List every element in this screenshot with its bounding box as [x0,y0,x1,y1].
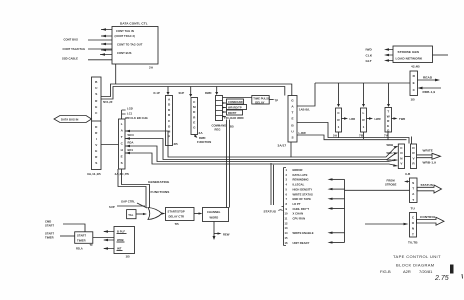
wire gate out1 [297,83,315,106]
wire control in [365,223,409,226]
box U18 channel word [203,208,229,222]
label SUP [179,91,185,95]
svg-text:B PLF: B PLF [117,230,125,234]
svg-text:TU,TB: TU,TB [408,241,418,245]
svg-text:TU: TU [411,207,416,211]
svg-text:DATA CONTL CTL: DATA CONTL CTL [120,22,148,26]
svg-text:5A: 5A [333,134,338,138]
wire lrr [342,117,356,121]
label tr load wrd [224,116,244,120]
svg-text:STATUS: STATUS [421,183,434,187]
svg-text:REWINDING: REWINDING [293,178,309,182]
wire band L1 [125,130,398,157]
svg-text:14: 14 [285,231,289,235]
svg-text:LWR: LWR [375,117,381,121]
svg-text:CONT TAG IN: CONT TAG IN [116,29,134,33]
box U10 twr reg [384,108,392,138]
svg-text:GATEBUS: GATEBUS [291,99,294,140]
box U9 lr1 [359,108,367,138]
label RWD [205,91,212,95]
label list r11 [285,217,306,221]
svg-text:8: 8 [286,202,288,206]
svg-text:STROBE GEN: STROBE GEN [398,50,420,54]
svg-text:STAT: STAT [412,181,415,202]
label from strobe [385,179,410,187]
svg-text:RWD: RWD [199,136,206,140]
wire latch top ticks [122,110,126,119]
svg-text:SUP: SUP [179,91,185,95]
svg-text:4: 4 [286,183,288,187]
svg-text:LD PT: LD PT [293,202,301,206]
svg-text:16: 16 [285,241,289,245]
box U5 command reg cells [212,96,235,132]
svg-text:CONTROL: CONTROL [420,215,436,219]
svg-text:WDB: WDB [387,143,394,147]
node data bus in arrow [54,116,92,123]
svg-text:GAP CTRL: GAP CTRL [121,200,135,204]
svg-text:RD,A: RD,A [76,247,83,251]
box U20 pulse outputs [114,227,135,259]
svg-text:CONT TAG/CTAG: CONT TAG/CTAG [63,47,86,51]
svg-text:CONT BUS: CONT BUS [64,38,79,42]
svg-text:HIGH DENSITY: HIGH DENSITY [293,187,313,191]
label command row3 [227,110,243,115]
label sup2 [109,205,145,209]
wire rew branch [214,232,230,236]
wire pulse arrows [103,230,114,250]
label title1 [393,254,441,259]
svg-text:FUNCTIONS: FUNCTIONS [151,190,170,194]
box U13 latch [115,119,130,176]
svg-text:COMMAND: COMMAND [212,124,227,128]
svg-text:6: 6 [286,192,288,196]
wire start to pulse box [93,237,114,239]
wire strobe out [433,54,449,56]
label gap ctrl [121,200,147,209]
box U3 addr comp [166,96,179,147]
svg-text:BUSREC: BUSREC [95,80,98,115]
label page number [434,274,463,282]
svg-text:GLT: GLT [366,59,372,63]
label 1AB-B/L [299,108,310,112]
label cmd start [45,220,54,228]
svg-text:WD1: WD1 [387,151,394,155]
svg-text:CONT TO TAG OUT: CONT TO TAG OUT [117,43,143,47]
svg-text:CLK: CLK [366,54,373,58]
svg-text:CR1: CR1 [337,111,340,129]
svg-text:WC3: WC3 [128,133,135,137]
wire start timer line [60,235,75,237]
svg-text:DELAY CTR: DELAY CTR [169,215,185,219]
box U14 write conv [398,144,404,169]
label L-RW [299,131,307,135]
svg-text:WRB-1,9: WRB-1,9 [423,161,437,165]
svg-text:RD/TP: RD/TP [228,111,236,115]
svg-text:10: 10 [285,212,289,216]
svg-text:SSD CABLE: SSD CABLE [62,57,78,61]
label list r16 [285,241,345,245]
svg-text:TR LOAD WRD: TR LOAD WRD [224,116,244,120]
label cont tag [63,47,86,51]
svg-text:1B: 1B [126,255,131,259]
svg-text:CPU RUN: CPU RUN [293,217,306,221]
node black bar [450,265,454,274]
wire main bus pair [101,84,292,99]
wire right bus [315,82,410,84]
svg-text:REG: REG [215,128,221,132]
svg-text:ERROR: ERROR [293,168,303,172]
wire cont arrows left [88,28,112,60]
wire status drop pair [271,163,274,205]
label D-1P [154,91,160,95]
label 5F/1,2F [103,100,113,104]
svg-text:7/20/81: 7/20/81 [419,269,433,274]
label list r5 [286,187,345,191]
svg-text:STATUS: STATUS [264,210,277,214]
wire drop to C [215,87,218,96]
svg-text:CHNL RDY'T: CHNL RDY'T [293,207,310,211]
label CLK [366,54,373,58]
svg-text:DATA LATE: DATA LATE [293,173,308,177]
label cont bus [64,38,79,42]
label list r6 [286,192,314,196]
box U2 bus receivers drivers [92,77,102,170]
box U21 tu status [410,178,418,211]
svg-text:CMDREG: CMDREG [193,100,196,130]
svg-text:TIMER: TIMER [45,236,54,240]
wire cmd label pair [227,120,230,208]
svg-text:START: START [45,232,54,236]
svg-text:FIG-B: FIG-B [380,269,391,274]
label LC0 [127,107,133,111]
wire drop r2 [362,83,365,107]
label generating [148,180,170,184]
svg-text:WR RD/TP: WR RD/TP [228,106,242,110]
label title2 [396,263,435,268]
svg-text:13: 13 [285,226,289,230]
svg-text:TIMER: TIMER [77,239,86,243]
svg-text:START/STOP: START/STOP [168,210,185,214]
svg-text:WRITE: WRITE [423,149,433,153]
label list r1 [286,168,303,172]
svg-text:READ: READ [423,76,433,80]
wire twr [392,117,406,121]
label list r2 [286,173,308,177]
wire channel down [213,222,216,241]
svg-text:D-1P: D-1P [154,91,160,95]
svg-text:DATA BUS IN: DATA BUS IN [61,118,78,122]
svg-text:2A: 2A [199,131,204,135]
wire cmd cell arrows [222,102,226,118]
svg-text:WDB: WDB [117,238,124,242]
wire data ctl drop [115,64,117,84]
label start timer lbl [45,232,54,240]
svg-text:A2R: A2R [403,269,411,274]
svg-text:FUNCTION: FUNCTION [197,140,211,144]
svg-text:TAPE CONTROL UNIT: TAPE CONTROL UNIT [393,254,441,259]
svg-text:TWR: TWR [399,117,405,121]
svg-text:LC1: LC1 [127,112,133,116]
label list r9 [286,207,345,211]
wire or out [162,212,166,214]
wire drop r1 [337,83,340,107]
svg-text:WDA: WDA [387,158,394,162]
svg-text:CMD: CMD [45,220,51,224]
svg-text:15: 15 [285,236,289,240]
svg-text:BLOCK DIAGRAM: BLOCK DIAGRAM [396,263,435,268]
svg-text:REC: REC [413,74,416,92]
svg-text:1B: 1B [411,98,416,102]
wire drop to A [167,87,170,96]
label WC3 [128,133,135,137]
label wr clk [125,116,148,120]
svg-text:WR CLK BD CHG: WR CLK BD CHG [125,116,148,120]
svg-text:9: 9 [286,207,288,211]
svg-text:TP: TP [275,99,279,103]
label status left [264,210,283,214]
label list r4 [286,183,305,187]
svg-text:REW: REW [223,233,230,237]
svg-text:2: 2 [286,173,288,177]
svg-text:2.75: 2.75 [434,275,449,282]
wire lwr [367,117,381,121]
svg-text:LCØ: LCØ [127,107,133,111]
label command row1 [227,99,244,104]
svg-text:WORD: WORD [210,216,219,220]
box U6 time pulse delay [223,96,279,105]
label LC1 [127,112,133,116]
svg-text:STROBE: STROBE [385,183,397,187]
svg-text:1: 1 [286,168,288,172]
wire read out [418,76,441,82]
box U19 start timer [75,232,93,251]
wire band L4 [125,152,398,167]
box U16 tal [127,210,136,219]
label ssd cable [62,57,78,61]
svg-text:DRIVERS: DRIVERS [95,125,98,165]
wire cmd start line [63,224,85,232]
svg-text:BD1: BD1 [128,148,134,152]
label functions [151,190,170,194]
svg-text:LOAD NETWORK: LOAD NETWORK [396,57,423,61]
label WDB [387,143,394,147]
node control out arrow [417,215,445,225]
label BD1 [128,148,134,152]
svg-text:COMMAND: COMMAND [228,100,243,104]
svg-text:CONT BUS: CONT BUS [117,51,132,55]
wire write out arrow [417,149,441,165]
label title3 [380,269,433,274]
wire band L2 [125,137,398,159]
wire tal out [136,213,147,215]
wire gate out2 [297,123,409,144]
wire band L3 [125,145,398,162]
svg-text:(CONT TRAC 2): (CONT TRAC 2) [115,34,136,38]
label command row2 [227,105,247,110]
label list r8 [286,202,301,206]
svg-text:LR1: LR1 [362,111,365,129]
box U7 gate bus [278,96,298,148]
svg-text:LATCHES: LATCHES [121,122,124,165]
box U11 read rec [410,71,418,102]
svg-text:2B: 2B [174,142,179,146]
box U1 data control ctl [112,22,158,70]
svg-text:RWD: RWD [205,91,212,95]
label list r13 [285,226,289,230]
wire bus to latch [101,144,119,146]
box U12 strobe gen [393,46,433,69]
svg-text:TAL: TAL [128,213,133,217]
svg-text:END OF TAPE: END OF TAPE [293,197,312,201]
svg-text:ILLEGAL: ILLEGAL [293,183,305,187]
svg-text:RDB-1,9: RDB-1,9 [423,90,436,94]
label RDA [128,141,134,145]
svg-text:3A,11,1B: 3A,11,1B [87,172,101,176]
node status out arrow [417,183,442,193]
svg-text:LRR: LRR [350,117,356,121]
svg-text:CONV: CONV [400,146,403,166]
label list r14 [285,231,345,235]
box U15 write drvr [405,144,417,176]
wire r drops [339,132,389,140]
svg-text:1AB-B/L: 1AB-B/L [299,108,310,112]
svg-text:5F/1,2F: 5F/1,2F [103,100,113,104]
svg-text:4A,6C,7B: 4A,6C,7B [115,172,130,176]
svg-text:12: 12 [285,221,289,225]
gate G1 or [148,208,162,220]
svg-text:11: 11 [285,217,288,221]
node status bracket [282,168,287,246]
wire w1 w2 link [405,156,411,158]
wire gate bottom [290,142,292,157]
label GLT [366,59,372,63]
svg-text:L-RW: L-RW [299,131,307,135]
svg-text:2A: 2A [149,66,154,70]
svg-text:7B: 7B [175,222,180,226]
label 3A,11,1B [87,172,101,176]
wire latch bottom pair [118,169,150,208]
svg-text:TF: TF [90,243,94,247]
svg-text:SUP: SUP [109,205,115,209]
label rwd function [194,135,211,145]
svg-text:START: START [77,234,86,238]
svg-text:7: 7 [286,197,288,201]
wire strobe inputs [384,48,393,62]
label IWD [366,48,373,52]
svg-text:WRITE STATUS: WRITE STATUS [293,192,314,196]
label WDA [387,158,394,162]
svg-text:DELAY: DELAY [255,100,264,104]
svg-text:5: 5 [286,187,288,191]
svg-text:X CHAN: X CHAN [293,212,304,216]
svg-text:DRVR: DRVR [412,146,415,166]
svg-text:3A/17: 3A/17 [278,144,287,148]
svg-text:UNIT READY: UNIT READY [293,241,310,245]
svg-text:3: 3 [286,178,288,182]
label list r3 [286,178,345,182]
svg-text:3-B: 3-B [405,172,411,176]
svg-text:TWREG: TWREG [387,110,390,133]
svg-text:42,4B: 42,4B [411,65,420,69]
wire drop to B [189,87,192,98]
wire rdb in [418,87,442,94]
box U17 start stop delay [166,208,195,227]
svg-text:CHANNEL: CHANNEL [207,210,221,214]
label list r12 [285,221,289,225]
box U8 cr1 [333,108,342,138]
wire w2 top feed [411,137,413,145]
wire ss out [194,212,203,214]
box U4 cmd reg [191,98,203,136]
wire drop r3 [387,83,390,107]
svg-text:INT: INT [117,247,122,251]
wire gate out3 [297,135,407,140]
svg-text:2B: 2B [230,125,235,129]
svg-text:CONT: CONT [412,216,415,237]
svg-text:TIME PULSE: TIME PULSE [253,97,270,101]
wire status to tu [345,189,410,191]
label list r7 [286,197,345,201]
svg-text:GENERATING: GENERATING [148,180,170,184]
box U22 control drvr [408,213,418,245]
svg-text:RDA: RDA [128,141,134,145]
svg-text:START: START [45,224,54,228]
svg-text:IWD: IWD [366,48,373,52]
svg-text:WRITE ENABLE: WRITE ENABLE [293,231,314,235]
label list r10 [285,212,304,216]
label list r15 [285,236,289,240]
svg-text:FROM: FROM [387,179,396,183]
label WD1 [387,151,394,155]
wire status bus vertical [344,179,346,242]
